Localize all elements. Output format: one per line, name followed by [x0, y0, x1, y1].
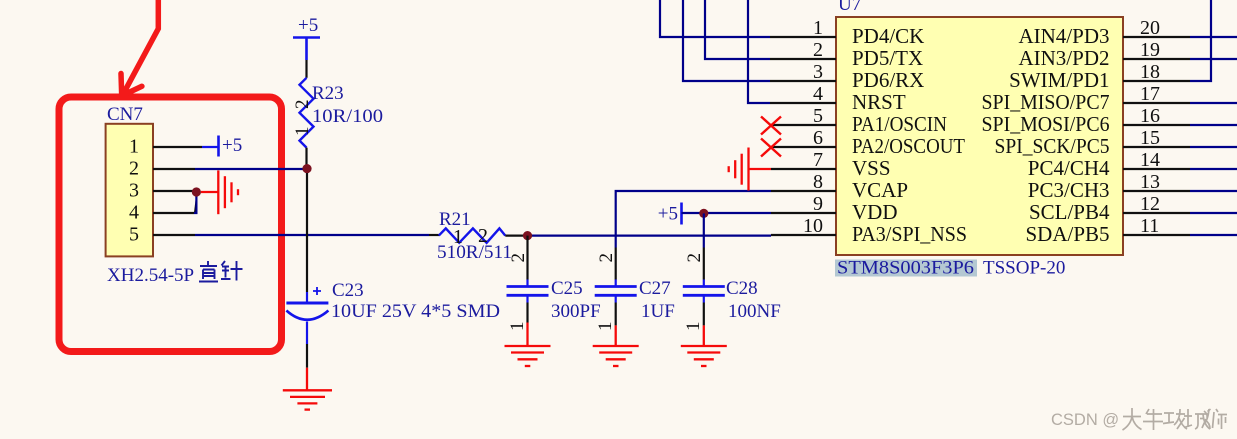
CN7 pin 1 stub — [153, 146, 202, 148]
svg-text:10UF 25V 4*5 SMD: 10UF 25V 4*5 SMD — [331, 301, 500, 322]
R21 left lead — [429, 234, 439, 236]
ground (CN7 pin 3, sideways) — [201, 170, 238, 214]
wire pin20 net — [1190, 36, 1237, 38]
CN7 pin 4 stub — [153, 212, 194, 214]
svg-text:PA3/SPI_NSS: PA3/SPI_NSS — [852, 222, 967, 246]
junction R23/CN7pin2/C23 — [302, 164, 311, 173]
IC U7 body — [836, 17, 1123, 255]
wire net to pin2 — [705, 0, 770, 59]
ground (below C23) — [283, 368, 332, 410]
ground (below C28) — [681, 325, 727, 366]
svg-text:14: 14 — [1140, 149, 1160, 171]
svg-text:3: 3 — [129, 180, 139, 202]
svg-text:SDA/PB5: SDA/PB5 — [1025, 222, 1109, 246]
svg-text:AIN3/PD2: AIN3/PD2 — [1018, 46, 1109, 70]
C27 top lead — [615, 248, 617, 280]
svg-text:+5: +5 — [658, 204, 678, 225]
针 — [221, 261, 243, 281]
wire net to pin1 — [660, 0, 770, 37]
junction CN7 pin3 node — [192, 187, 201, 196]
svg-text:+5: +5 — [298, 15, 318, 36]
城 — [1184, 409, 1211, 429]
U7 pin 17 stub — [1123, 102, 1190, 104]
svg-text:R21: R21 — [439, 209, 471, 230]
U7 pin 14 stub — [1123, 168, 1190, 170]
svg-text:12: 12 — [1140, 193, 1160, 215]
svg-text:15: 15 — [1140, 127, 1160, 149]
svg-text:510R/511: 510R/511 — [437, 242, 512, 263]
svg-text:4: 4 — [813, 83, 823, 105]
watermark CSDN — [1051, 408, 1227, 430]
U7 pin 6 stub — [771, 146, 836, 148]
svg-text:5: 5 — [129, 224, 139, 246]
svg-text:1: 1 — [129, 136, 139, 158]
U7 pin 10 stub — [771, 234, 836, 236]
C25 bottom lead — [526, 303, 528, 323]
svg-text:11: 11 — [1140, 215, 1159, 237]
svg-text:5: 5 — [813, 105, 823, 127]
wire pin12 net — [1190, 212, 1237, 214]
junction R21/C25 node — [523, 231, 532, 240]
U7 pin 16 stub — [1123, 124, 1190, 126]
svg-text:1: 1 — [595, 322, 616, 332]
C28 bottom lead — [703, 303, 705, 326]
right pin numbers 20-11 — [1140, 17, 1160, 237]
U7 pin 18 stub — [1123, 80, 1190, 82]
power +5 (CN7 pin 1) — [219, 135, 243, 157]
svg-text:6: 6 — [813, 127, 823, 149]
svg-text:CSDN @: CSDN @ — [1051, 411, 1119, 429]
svg-text:9: 9 — [813, 193, 823, 215]
svg-text:C25: C25 — [551, 278, 583, 299]
annotation red arrow — [121, 0, 158, 96]
svg-text:PC3/CH3: PC3/CH3 — [1028, 178, 1110, 202]
svg-text:PD5/TX: PD5/TX — [852, 46, 923, 70]
svg-text:2: 2 — [596, 253, 617, 263]
C28 top lead — [703, 248, 705, 280]
U7 pin 12 stub — [1123, 212, 1190, 214]
svg-text:TSSOP-20: TSSOP-20 — [983, 258, 1065, 279]
U7 pin 3 stub — [770, 80, 836, 82]
U7 pin 1 stub — [770, 36, 836, 38]
CN7 pin 3 stub — [153, 190, 194, 192]
right pin names — [982, 24, 1110, 246]
svg-text:1: 1 — [683, 322, 704, 332]
svg-text:XH2.54-5P: XH2.54-5P — [107, 265, 194, 286]
R23 top lead — [305, 60, 307, 78]
wire node down to C25 — [526, 236, 528, 280]
svg-text:2: 2 — [813, 39, 823, 61]
no-connect X pin 5 — [761, 117, 781, 135]
U7 pin 8 stub — [771, 190, 836, 192]
svg-text:SPI_MISO/PC7: SPI_MISO/PC7 — [982, 90, 1110, 114]
left pin names — [852, 24, 967, 246]
svg-text:100NF: 100NF — [728, 301, 781, 322]
svg-text:2: 2 — [292, 100, 313, 110]
大 — [1123, 408, 1142, 430]
left pin numbers 1-10 — [803, 17, 823, 237]
svg-text:C28: C28 — [726, 278, 758, 299]
svg-text:SWIM/PD1: SWIM/PD1 — [1009, 68, 1109, 92]
狮 — [1204, 409, 1227, 429]
svg-text:PA2/OSCOUT: PA2/OSCOUT — [852, 134, 965, 158]
svg-text:PA1/OSCIN: PA1/OSCIN — [852, 112, 947, 136]
resistor R21 — [439, 228, 506, 242]
junction VDD/C28 node — [699, 209, 708, 218]
connector CN7 — [106, 124, 153, 257]
svg-text:+5: +5 — [222, 135, 242, 156]
svg-text:C27: C27 — [639, 278, 671, 299]
CN7 pin 2 stub — [153, 168, 195, 170]
wire net to pin3 — [683, 0, 770, 81]
svg-text:PD6/RX: PD6/RX — [852, 68, 924, 92]
capacitor C28 — [683, 280, 725, 303]
wire +5 to VDD pin — [682, 212, 772, 214]
svg-text:PD4/CK: PD4/CK — [852, 24, 924, 48]
直 — [199, 261, 218, 282]
U7 pin 13 stub — [1123, 190, 1190, 192]
svg-text:19: 19 — [1140, 39, 1160, 61]
capacitor C23 (polarized) — [286, 287, 328, 344]
U7 pin 7 stub — [771, 168, 836, 170]
wire CN7 pin2 to R23 node — [195, 168, 307, 170]
U7 pin 9 stub — [771, 212, 836, 214]
CN7 pin 5 stub — [153, 234, 195, 236]
svg-text:3: 3 — [813, 61, 823, 83]
part type STM8S003F3P6 highlighted — [835, 258, 977, 279]
wire pin18 net up — [1190, 0, 1211, 81]
U7 pin 4 stub — [770, 102, 836, 104]
svg-text:7: 7 — [813, 149, 823, 171]
svg-text:16: 16 — [1140, 105, 1160, 127]
R21 right lead — [505, 235, 527, 237]
value label XH2.54-5P 直针 — [107, 261, 243, 286]
svg-text:STM8S003F3P6: STM8S003F3P6 — [837, 258, 974, 279]
攻 — [1163, 409, 1187, 429]
U7 pin 11 stub — [1123, 234, 1190, 236]
wire VCAP to C27 — [616, 191, 771, 248]
牛 — [1143, 409, 1163, 430]
wire junction down to C23 — [306, 173, 308, 292]
wire pin19 net — [1190, 58, 1237, 60]
R23 bottom lead — [305, 148, 307, 169]
svg-text:VCAP: VCAP — [852, 178, 908, 202]
svg-text:U7: U7 — [838, 0, 861, 15]
svg-text:VSS: VSS — [852, 156, 891, 180]
svg-text:SPI_SCK/PC5: SPI_SCK/PC5 — [995, 134, 1110, 158]
wire pin17 net — [1190, 102, 1237, 104]
svg-text:R23: R23 — [312, 83, 344, 104]
ground (below C27) — [593, 325, 639, 366]
wire net to pin4 — [748, 0, 770, 103]
svg-text:2: 2 — [508, 253, 529, 263]
ground (VSS, sideways) — [729, 148, 771, 191]
svg-text:1: 1 — [813, 17, 823, 39]
svg-text:SCL/PB4: SCL/PB4 — [1029, 200, 1110, 224]
wire pin16 net — [1190, 124, 1237, 126]
resistor R23 — [300, 78, 314, 148]
svg-text:AIN4/PD3: AIN4/PD3 — [1018, 24, 1109, 48]
svg-text:1: 1 — [507, 322, 528, 332]
svg-text:10: 10 — [803, 215, 823, 237]
wire R21 node to IC pin10 — [528, 235, 772, 237]
svg-text:10R/100: 10R/100 — [312, 106, 383, 127]
svg-text:13: 13 — [1140, 171, 1160, 193]
wire pin15 net — [1190, 146, 1237, 148]
wire pin11 net — [1190, 234, 1237, 236]
U7 pin 19 stub — [1123, 58, 1190, 60]
no-connect X pin 6 — [761, 139, 781, 157]
svg-text:18: 18 — [1140, 61, 1160, 83]
wire pin1 to +5 — [202, 146, 219, 148]
U7 pin 15 stub — [1123, 146, 1190, 148]
U7 pin 20 stub — [1123, 36, 1190, 38]
U7 pin 2 stub — [770, 58, 836, 60]
ground (below C25) — [505, 323, 551, 367]
U7 pin 5 stub — [771, 124, 836, 126]
C27 bottom lead — [615, 303, 617, 326]
C23 bottom lead — [306, 344, 308, 368]
wire CN7 pin5 to R21 — [195, 234, 429, 236]
svg-text:8: 8 — [813, 171, 823, 193]
wire pin4 up to pin3 node — [194, 192, 196, 213]
svg-text:SPI_MOSI/PC6: SPI_MOSI/PC6 — [982, 112, 1110, 136]
capacitor C25 — [507, 280, 549, 303]
svg-text:2: 2 — [129, 158, 139, 180]
svg-text:C23: C23 — [332, 280, 364, 301]
capacitor C27 — [595, 280, 637, 303]
svg-text:NRST: NRST — [852, 90, 906, 114]
annotation red box — [59, 97, 282, 352]
svg-text:CN7: CN7 — [107, 104, 143, 125]
svg-text:VDD: VDD — [852, 200, 898, 224]
svg-text:300PF: 300PF — [551, 301, 601, 322]
svg-text:17: 17 — [1140, 83, 1160, 105]
svg-text:4: 4 — [129, 202, 139, 224]
wire node down to C28 — [703, 213, 705, 247]
svg-text:1UF: 1UF — [641, 301, 675, 322]
wire pin14 net — [1190, 168, 1237, 170]
svg-text:1: 1 — [292, 127, 313, 137]
svg-text:2: 2 — [684, 253, 705, 263]
svg-text:PC4/CH4: PC4/CH4 — [1028, 156, 1110, 180]
power +5 (R23 top) — [293, 15, 320, 60]
svg-text:20: 20 — [1140, 17, 1160, 39]
power +5 (VDD) — [658, 203, 682, 225]
wire pin13 net — [1190, 190, 1237, 192]
